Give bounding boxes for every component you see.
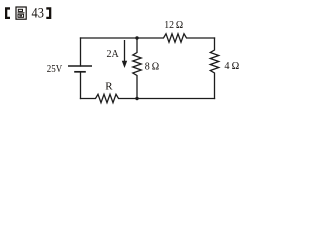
svg-text:2A: 2A	[107, 49, 120, 60]
svg-text:43: 43	[32, 6, 44, 22]
svg-text:12 Ω: 12 Ω	[164, 20, 183, 31]
svg-text:8 Ω: 8 Ω	[145, 60, 159, 72]
svg-text:25V: 25V	[47, 63, 62, 75]
svg-text:R: R	[105, 80, 113, 92]
svg-text:4 Ω: 4 Ω	[224, 60, 239, 72]
